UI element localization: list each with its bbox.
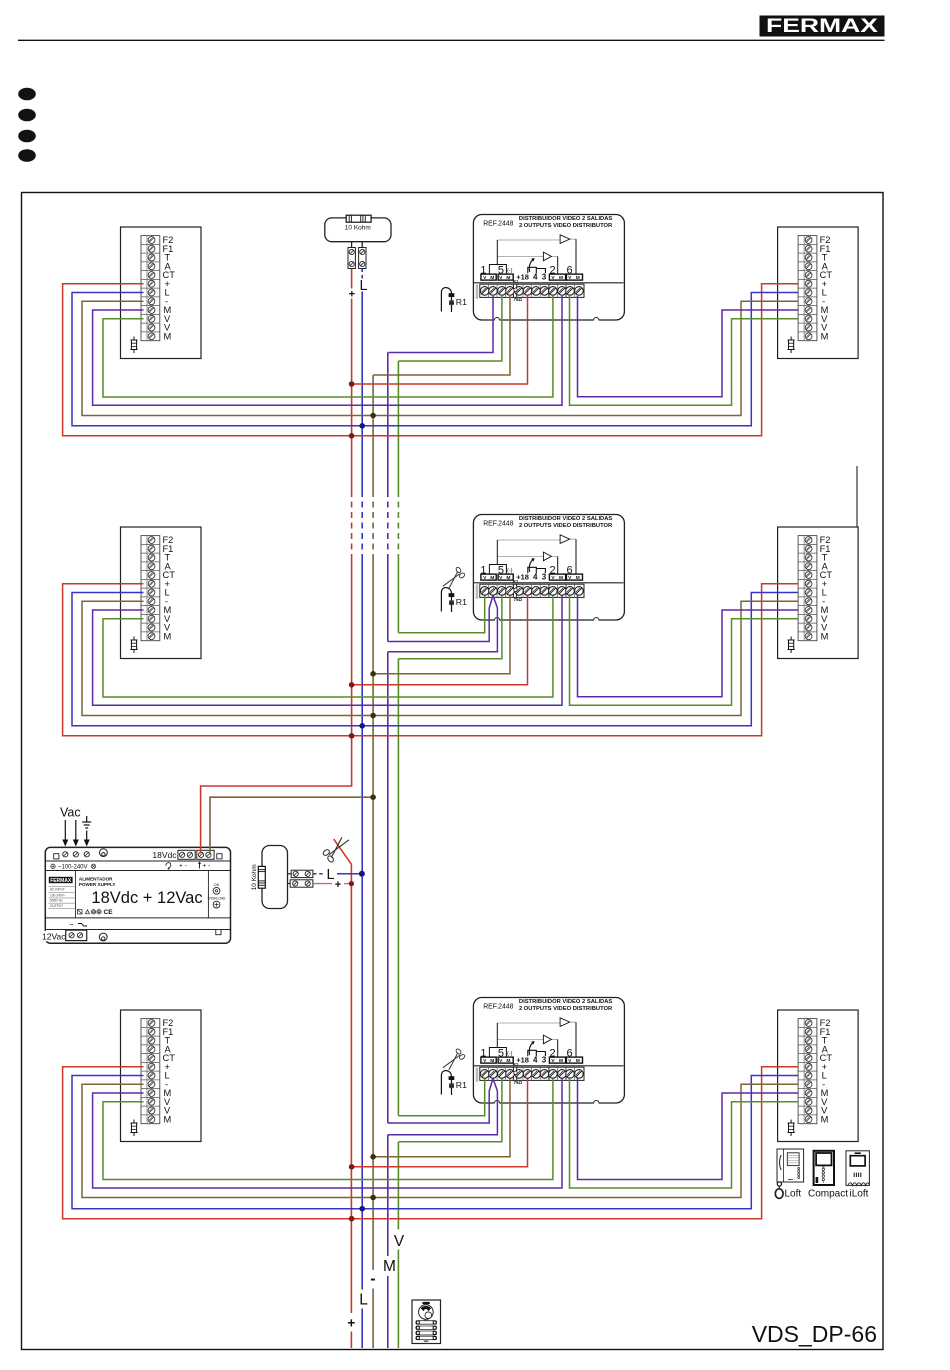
svg-text:ALIMENTADOR: ALIMENTADOR (79, 877, 113, 882)
wire green V left floor3 (103, 1079, 553, 1180)
100-240V row (51, 864, 55, 868)
junction L bus floor1 (359, 423, 365, 429)
wire loop (325, 218, 391, 242)
FERMAX logo (760, 16, 885, 38)
distributor floor3 (473, 998, 624, 1104)
header rule (18, 39, 885, 41)
riser L (blue) (361, 269, 363, 1349)
svg-text:OUTPUT: OUTPUT (50, 904, 63, 908)
svg-text:M: M (383, 1258, 396, 1275)
wire purple M left floor1 (93, 296, 562, 405)
wire red + floor2 (63, 584, 798, 736)
left terminal block floor3 (121, 1010, 202, 1142)
cert icons (78, 910, 102, 915)
wire purple M right floor2 (578, 596, 799, 697)
junction dot PSU brown (370, 794, 376, 800)
left terminal block floor2 (121, 527, 202, 659)
svg-text:+: + (335, 879, 341, 891)
wire +18 to + riser floor3 (352, 1079, 528, 1167)
junction L bus floor3 (359, 1206, 365, 1212)
scissors cut R1 floor2 (443, 566, 466, 588)
wire 5-V to V riser floor1 (398, 296, 502, 361)
connector right (359, 248, 366, 269)
wire purple M left floor3 (93, 1079, 562, 1189)
riser + (red) (201, 269, 352, 1349)
monitor Loft (777, 1149, 804, 1182)
R1 resistor floor1 (441, 288, 467, 312)
wire purple M right floor3 (578, 1079, 799, 1180)
svg-text:+: + (347, 1315, 355, 1330)
R1 resistor floor3 (441, 1071, 467, 1095)
junction +18 to + riser floor3 (349, 1164, 355, 1170)
svg-text:Loft: Loft (785, 1188, 802, 1199)
svg-text:+: + (349, 289, 355, 301)
R1 resistor floor2 (441, 588, 467, 612)
wire 5-V to V riser floor2 (398, 596, 502, 659)
connector left (348, 248, 355, 269)
svg-text:+ -: + - (203, 863, 211, 870)
junction + bus floor3 (349, 1216, 355, 1222)
svg-text:AC INPUT: AC INPUT (50, 888, 65, 892)
wire green V right floor3 (570, 1079, 799, 1189)
bottom strip (42, 931, 66, 942)
PSU box (45, 847, 230, 943)
distributor floor2 (473, 515, 624, 621)
svg-text:iLoft: iLoft (850, 1188, 869, 1199)
svg-text:VDS_DP-66: VDS_DP-66 (752, 1321, 877, 1347)
wire 1-M twin from M riser floor2 (388, 596, 493, 642)
wire green V left floor2 (103, 596, 553, 698)
svg-text:18Vdc: 18Vdc (152, 850, 177, 860)
wire blue L floor3 (72, 1076, 798, 1209)
wire green V left floor1 (103, 296, 553, 397)
right terminal block floor2 (778, 527, 859, 659)
spec table (49, 887, 75, 909)
wire 5-M to - riser floor1 (373, 296, 510, 375)
junction 5-M to - riser floor2 (370, 671, 376, 677)
svg-text:-: - (370, 1270, 375, 1287)
wire +18 to + riser floor1 (352, 296, 528, 384)
FERMAX small logo (49, 877, 73, 883)
junction - bus floor1 (370, 413, 376, 419)
monitor Compact (814, 1151, 834, 1185)
svg-text:~: ~ (69, 920, 74, 929)
svg-text:L: L (359, 278, 367, 294)
wire +18 to + riser floor2 (352, 596, 528, 685)
svg-text:18Vdc + 12Vac: 18Vdc + 12Vac (91, 889, 202, 907)
top screws (63, 852, 68, 857)
left terminal block floor1 (121, 227, 202, 359)
wire 5-M to - riser floor2 (373, 596, 510, 674)
svg-text:POWER SUPPLY: POWER SUPPLY (79, 882, 116, 887)
wire green V right floor1 (570, 296, 799, 405)
riser - (brown) (372, 375, 374, 1348)
wire 5-M to - riser floor3 (373, 1079, 510, 1157)
junction +18 to + riser floor1 (349, 381, 355, 387)
wire brown PSU to - riser (210, 797, 373, 853)
wire 1-V from V riser floor2 (398, 596, 484, 633)
junction + bus floor1 (349, 433, 355, 439)
right terminal block floor3 (778, 1010, 859, 1142)
svg-text:10 Kohm: 10 Kohm (345, 225, 371, 232)
svg-text:~100-240V: ~100-240V (58, 865, 88, 871)
svg-text:12Vac: 12Vac (42, 932, 66, 942)
key icon (777, 1182, 781, 1186)
svg-text:100-240V~: 100-240V~ (50, 893, 66, 897)
svg-text:ON: ON (214, 883, 220, 887)
distributor floor1 (473, 215, 624, 321)
junction 5-M to - riser floor3 (370, 1154, 376, 1160)
wire purple M right floor1 (578, 296, 799, 397)
earth symbol (82, 816, 91, 828)
svg-text:V: V (394, 1233, 405, 1250)
svg-text:L: L (326, 867, 334, 883)
wire blue L floor2 (72, 593, 798, 726)
wire loop (262, 846, 288, 909)
svg-text:OVERLOAD: OVERLOAD (208, 897, 226, 901)
svg-text:+ -: + - (179, 863, 187, 870)
wire green V right floor2 (570, 596, 799, 706)
resistor 10 Kohm vertical (258, 866, 265, 888)
resistor 10 Kohm (346, 215, 371, 222)
red stub to + riser (313, 883, 332, 885)
corner squares (54, 854, 59, 859)
monitor iLoft (846, 1151, 869, 1186)
wire red + floor3 (63, 1067, 798, 1219)
riser M (purple) (387, 353, 389, 1349)
svg-text:FERMAX: FERMAX (766, 16, 878, 37)
wire brown - floor1 (82, 301, 798, 415)
blue stub to L riser (313, 873, 324, 875)
input arrows (65, 820, 86, 841)
wire 5-V to V riser floor3 (398, 1079, 502, 1142)
junction +18 to + riser floor2 (349, 682, 355, 688)
wire 1-V from V riser floor3 (398, 1079, 484, 1116)
riser V (green) (397, 361, 399, 1348)
junction - bus floor3 (370, 1195, 376, 1201)
svg-text:Vac: Vac (60, 806, 81, 820)
wire red + floor1 (63, 284, 798, 436)
svg-text:50/60 Hz: 50/60 Hz (50, 899, 63, 903)
wire 1-M to M riser floor1 (388, 296, 493, 353)
junction - bus floor2 (370, 713, 376, 719)
svg-text:CE: CE (104, 909, 114, 916)
bullet list (18, 88, 36, 101)
wire brown - floor3 (82, 1084, 798, 1197)
junction L bus floor2 (359, 723, 365, 729)
junction + bus floor2 (349, 733, 355, 739)
wire 1-M twin from M riser floor3 (388, 1079, 493, 1124)
svg-text:FERMAX: FERMAX (50, 878, 72, 884)
scissors cut + riser (322, 837, 349, 863)
svg-text:Compact: Compact (808, 1189, 848, 1200)
right terminal block floor1 (778, 227, 859, 359)
svg-text:10 Kohm: 10 Kohm (251, 864, 258, 890)
scissors cut R1 floor3 (443, 1048, 466, 1070)
riser continuation stub above right block floor2 (856, 466, 858, 527)
wire purple M left floor2 (93, 596, 562, 706)
wire brown - floor2 (82, 601, 798, 715)
wire blue L floor1 (72, 293, 798, 426)
svg-text:L: L (359, 1292, 368, 1309)
diagram frame (22, 193, 884, 1350)
connectors (291, 870, 313, 877)
